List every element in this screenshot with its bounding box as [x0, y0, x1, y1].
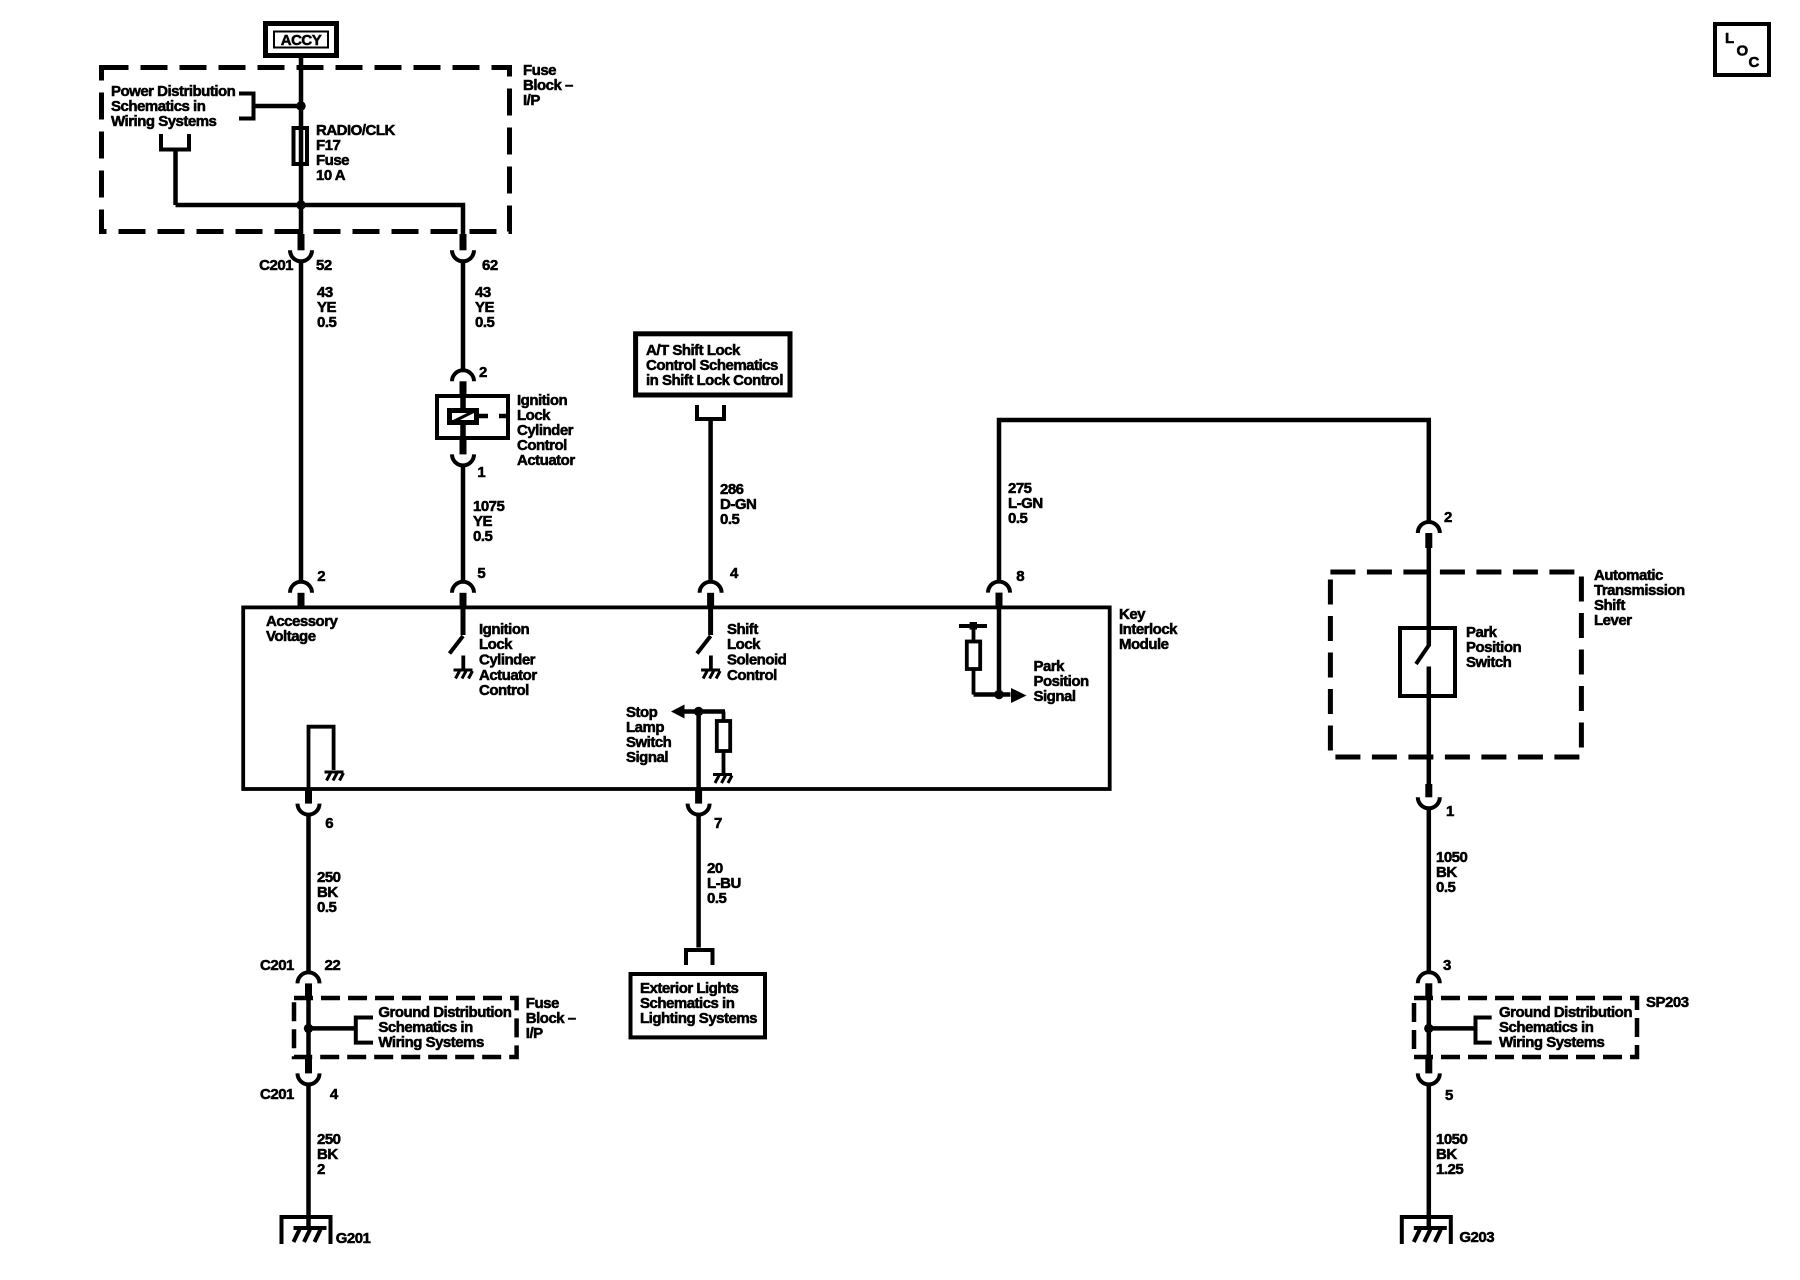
svg-text:O: O — [1737, 43, 1749, 60]
svg-text:6: 6 — [325, 815, 333, 832]
svg-text:Control: Control — [727, 667, 777, 684]
svg-text:L: L — [1725, 30, 1734, 47]
svg-text:C: C — [1749, 54, 1760, 71]
svg-text:ACCY: ACCY — [281, 32, 322, 49]
svg-text:2: 2 — [317, 1161, 325, 1178]
svg-text:SP203: SP203 — [1646, 994, 1689, 1011]
svg-text:2: 2 — [479, 364, 487, 381]
svg-text:0.5: 0.5 — [1436, 879, 1456, 896]
svg-text:1: 1 — [1446, 803, 1454, 820]
svg-text:I/P: I/P — [523, 92, 540, 109]
svg-text:0.5: 0.5 — [317, 314, 337, 331]
svg-text:G203: G203 — [1459, 1229, 1494, 1246]
svg-text:4: 4 — [330, 1086, 339, 1103]
svg-text:Lever: Lever — [1594, 612, 1632, 629]
svg-text:0.5: 0.5 — [473, 528, 493, 545]
svg-text:I/P: I/P — [526, 1025, 543, 1042]
svg-text:C201: C201 — [260, 957, 294, 974]
svg-text:5: 5 — [477, 565, 485, 582]
svg-text:Wiring Systems: Wiring Systems — [111, 113, 217, 130]
svg-text:Wiring Systems: Wiring Systems — [1499, 1034, 1605, 1051]
svg-text:10 A: 10 A — [316, 167, 346, 184]
svg-text:Switch: Switch — [1466, 654, 1512, 671]
svg-text:1.25: 1.25 — [1436, 1161, 1463, 1178]
svg-text:Actuator: Actuator — [517, 452, 575, 469]
svg-text:Lock: Lock — [479, 636, 513, 653]
svg-text:C201: C201 — [260, 1086, 294, 1103]
svg-text:Signal: Signal — [626, 749, 668, 766]
svg-text:52: 52 — [316, 257, 332, 274]
svg-text:C201: C201 — [259, 257, 293, 274]
svg-text:Module: Module — [1119, 636, 1169, 653]
svg-text:8: 8 — [1016, 568, 1024, 585]
svg-text:5: 5 — [1445, 1087, 1453, 1104]
svg-text:Lock: Lock — [727, 636, 761, 653]
svg-text:Lighting Systems: Lighting Systems — [640, 1010, 757, 1027]
svg-text:in Shift Lock Control: in Shift Lock Control — [646, 372, 783, 389]
svg-text:G201: G201 — [336, 1230, 371, 1247]
svg-text:0.5: 0.5 — [720, 511, 740, 528]
svg-text:0.5: 0.5 — [707, 890, 727, 907]
svg-text:7: 7 — [714, 815, 722, 832]
svg-text:0.5: 0.5 — [1008, 510, 1028, 527]
svg-text:Signal: Signal — [1034, 688, 1076, 705]
svg-text:Cylinder: Cylinder — [479, 652, 536, 669]
svg-text:4: 4 — [730, 565, 739, 582]
svg-text:1: 1 — [477, 464, 485, 481]
svg-text:Solenoid: Solenoid — [727, 652, 787, 669]
svg-text:3: 3 — [1443, 957, 1451, 974]
svg-text:0.5: 0.5 — [475, 314, 495, 331]
svg-text:2: 2 — [1444, 509, 1452, 526]
svg-text:22: 22 — [325, 957, 341, 974]
svg-text:2: 2 — [317, 568, 325, 585]
svg-text:Control: Control — [479, 682, 529, 699]
svg-text:Voltage: Voltage — [266, 628, 316, 645]
svg-text:Wiring Systems: Wiring Systems — [378, 1034, 484, 1051]
svg-text:62: 62 — [482, 257, 498, 274]
svg-text:0.5: 0.5 — [317, 899, 337, 916]
